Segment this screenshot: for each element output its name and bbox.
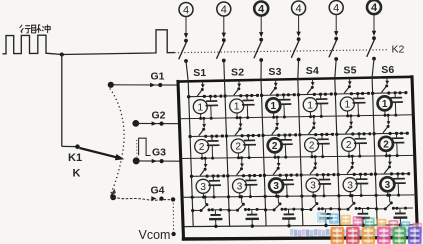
pixel cell row3 col5: pixel electrode circle "3" bbox=[343, 178, 357, 192]
pixel cell row1 col3: storage capacitor bbox=[283, 95, 285, 100]
circled 4 (data value) above S4 switch bbox=[292, 1, 306, 15]
pixel cell row2 col6: pixel return lead bbox=[385, 151, 387, 156]
svg-text:4: 4 bbox=[258, 4, 265, 16]
arrow from circled 4 down to S2 switch bbox=[223, 16, 225, 33]
column line S4 (source line) bbox=[297, 60, 300, 80]
node on G1 line bbox=[158, 83, 162, 87]
junction node (row pulse feed to K1) bbox=[60, 53, 64, 57]
pixel cell row1 col4: pixel return lead bbox=[309, 112, 311, 117]
pixel cell row2 col6: storage capacitor bbox=[396, 133, 398, 137]
pixel cell row1 col3: gate line segment bbox=[260, 80, 296, 119]
pixel cell row1 col5: storage capacitor bbox=[357, 94, 359, 98]
pixel cell row2 col4: pixel return lead bbox=[311, 152, 313, 157]
K2 switch S1 upper contact bbox=[184, 39, 188, 43]
svg-text:K1: K1 bbox=[68, 152, 82, 164]
pixel cell row3 col5: pixel return lead bbox=[349, 192, 351, 196]
K2 switch S2 upper contact bbox=[222, 38, 226, 42]
svg-text:K2: K2 bbox=[392, 44, 405, 56]
K2 switch S1 blade (open) bbox=[179, 42, 187, 60]
K1 contact G3 bbox=[133, 157, 140, 164]
svg-text:3: 3 bbox=[385, 180, 391, 191]
column line S3 (source line) bbox=[260, 60, 262, 80]
watermark: small colored site-name text (slanted row) bbox=[317, 212, 422, 233]
pixel cell row1 col4: storage capacitor bbox=[320, 94, 322, 99]
K2 switch S6 upper contact bbox=[372, 36, 376, 40]
K1 contact G1 bbox=[108, 82, 114, 88]
arrow from circled 4 down to S5 switch bbox=[335, 14, 337, 31]
pixel cell row1 col2: gate line segment bbox=[223, 81, 259, 120]
pixel cell row2 col2: pixel electrode circle "2" bbox=[231, 139, 245, 153]
column line S5 (source line) bbox=[335, 59, 336, 78]
K2 switch S5 lower contact bbox=[334, 57, 338, 61]
junction col1 row line bbox=[189, 135, 192, 138]
pixel cell row3 col5: storage capacitor bbox=[360, 174, 362, 178]
pixel cell row3 col6: gate line segment bbox=[374, 154, 411, 197]
bottom cell col5: switch and capacitor to Vcom rail bbox=[338, 194, 376, 227]
pixel cell row2 col4: TFT switch bbox=[312, 115, 315, 118]
pixel cell row3 col1: TFT switch bbox=[204, 157, 207, 160]
K2 switch S2 blade (open) bbox=[217, 41, 225, 59]
circled 4 (data value) above S6 switch bbox=[367, 0, 381, 14]
node on G4 line bbox=[159, 197, 163, 201]
pixel cell row1 col3: pixel electrode circle "1" bbox=[266, 98, 280, 112]
pixel cell row1 col4: pixel electrode circle "1" bbox=[303, 98, 317, 112]
gate pulse symbol at G3 contact bbox=[139, 138, 151, 155]
label "行脉冲" (row pulse) bbox=[20, 25, 51, 34]
K2 switch S6 lower contact bbox=[372, 57, 376, 61]
pixel cell row2 col1: storage capacitor bbox=[211, 136, 213, 140]
junction col2 row line bbox=[226, 174, 229, 177]
pixel cell row1 col2: pixel return lead bbox=[236, 113, 238, 118]
pixel cell row2 col2: pixel return lead bbox=[237, 153, 239, 158]
pixel cell row3 col4: gate line segment bbox=[300, 155, 336, 197]
wire: G2 row lead bbox=[136, 122, 180, 124]
svg-text:S3: S3 bbox=[268, 66, 281, 78]
junction col5 row line bbox=[337, 194, 340, 197]
node: Vcom connection bbox=[171, 232, 175, 236]
K1 wiper travel arc (dotted) bbox=[110, 89, 124, 194]
pixel cell row3 col4: TFT switch bbox=[314, 155, 317, 158]
K2 switch S3 blade (open) bbox=[254, 41, 262, 59]
junction col1 row line bbox=[187, 95, 190, 98]
junction col5 row line bbox=[334, 92, 337, 95]
K2 switch S4 lower contact bbox=[297, 58, 301, 62]
junction col2 row line bbox=[223, 94, 226, 97]
row G1 pixel common line (lower) bbox=[179, 115, 413, 119]
svg-text:2: 2 bbox=[199, 142, 205, 153]
pixel cell row1 col2: storage capacitor bbox=[246, 96, 248, 100]
arrow from circled 4 down to S1 switch bbox=[185, 16, 187, 33]
svg-text:1: 1 bbox=[307, 100, 313, 111]
K1 pole arrow (wiper pointing at G3 contact) bbox=[80, 148, 117, 157]
arrow from circled 4 down to S3 switch bbox=[260, 15, 262, 32]
junction col2 row line bbox=[225, 134, 228, 137]
pixel cell row2 col1: gate line segment bbox=[189, 117, 224, 160]
K2 switch S2 lower contact bbox=[222, 59, 226, 63]
pixel cell row1 col6: TFT switch bbox=[386, 78, 388, 84]
pixel cell row2 col3: storage capacitor bbox=[284, 135, 286, 139]
pixel cell row2 col6: pixel electrode circle "2" bbox=[379, 137, 393, 151]
junction col3 row line bbox=[260, 94, 263, 97]
pixel cell row2 col5: pixel electrode circle "2" bbox=[342, 137, 356, 151]
pixel cell row1 col1: TFT switch bbox=[202, 81, 204, 87]
pixel cell row3 col1: pixel return lead bbox=[202, 193, 204, 197]
pixel cell row3 col3: TFT switch bbox=[277, 156, 280, 159]
svg-text:S4: S4 bbox=[306, 65, 319, 77]
bottom cell col4: switch and capacitor to Vcom rail bbox=[301, 194, 339, 227]
row-pulse train waveform bbox=[3, 35, 62, 54]
svg-text:1: 1 bbox=[198, 102, 204, 113]
arrow from circled 4 down to S4 switch bbox=[298, 15, 300, 32]
svg-text:4: 4 bbox=[221, 4, 227, 16]
svg-text:G3: G3 bbox=[152, 147, 166, 159]
wire: vertical feed from junction down to K1 pole bbox=[61, 55, 63, 147]
dotted Vcom riser wire bbox=[172, 200, 174, 234]
pixel cell row3 col6: storage capacitor bbox=[397, 174, 399, 178]
pixel cell row1 col3: TFT switch bbox=[275, 80, 277, 86]
svg-text:3: 3 bbox=[347, 180, 353, 191]
pixel cell row1 col4: gate line segment bbox=[297, 79, 333, 118]
row G2 pixel common line (lower) bbox=[181, 155, 415, 158]
svg-text:K: K bbox=[73, 168, 81, 180]
junction col2 row line bbox=[227, 195, 230, 198]
wire: G4 row lead bbox=[113, 197, 173, 200]
pixel cell row3 col3: storage capacitor bbox=[285, 175, 287, 179]
circled 4 (data value) above S3 switch bbox=[254, 2, 268, 16]
junction col4 row line bbox=[300, 195, 303, 198]
bottom cell col1: switch and capacitor to Vcom rail bbox=[191, 195, 228, 228]
pixel cell row1 col1: storage capacitor bbox=[210, 96, 212, 100]
arrow from circled 4 down to S6 switch bbox=[373, 14, 375, 31]
wire: short horizontal to K1 pole bbox=[62, 145, 77, 147]
svg-text:1: 1 bbox=[382, 99, 388, 110]
K2 switch S1 lower contact bbox=[184, 59, 188, 63]
pixel cell row1 col5: TFT switch bbox=[349, 79, 351, 85]
bottom cell col2: switch and capacitor to Vcom rail bbox=[227, 195, 264, 228]
svg-text:Vcom: Vcom bbox=[139, 228, 171, 242]
K2 switch S3 upper contact bbox=[259, 38, 263, 42]
pixel cell row2 col2: gate line segment bbox=[225, 116, 261, 159]
svg-text:4: 4 bbox=[183, 5, 189, 17]
bottom cell col6: switch and capacitor to Vcom rail bbox=[375, 194, 413, 227]
pixel cell row2 col4: pixel electrode circle "2" bbox=[305, 138, 319, 152]
svg-text:4: 4 bbox=[333, 3, 339, 15]
single gate pulse on line bbox=[153, 30, 175, 53]
pixel cell row3 col1: pixel electrode circle "3" bbox=[196, 179, 210, 193]
arrowhead on G2 line bbox=[152, 121, 157, 125]
bottom cell col3: switch and capacitor to Vcom rail bbox=[264, 195, 301, 228]
pixel cell row3 col5: TFT switch bbox=[351, 155, 354, 158]
K2 switch S3 lower contact bbox=[259, 58, 263, 62]
pixel cell row3 col2: pixel return lead bbox=[239, 193, 241, 197]
pixel cell row1 col3: pixel return lead bbox=[273, 112, 275, 117]
LCD panel border bbox=[178, 77, 412, 82]
pixel cell row2 col3: pixel return lead bbox=[274, 153, 276, 158]
pixel cell row1 col4: TFT switch bbox=[312, 79, 314, 85]
wire: G3 row lead bbox=[136, 160, 181, 162]
junction col6 row line bbox=[374, 173, 377, 176]
circled 4 (data value) above S2 switch bbox=[217, 2, 231, 16]
pixel cell row2 col3: pixel electrode circle "2" bbox=[268, 138, 282, 152]
junction col3 row line bbox=[264, 195, 267, 198]
node on G2 line bbox=[159, 122, 163, 126]
svg-text:3: 3 bbox=[273, 181, 279, 192]
pixel cell row2 col4: gate line segment bbox=[298, 115, 334, 158]
junction col4 row line bbox=[300, 173, 303, 176]
K2 switch S4 upper contact bbox=[297, 37, 301, 41]
arrowhead on G1 line bbox=[150, 83, 155, 87]
pixel cell row3 col2: TFT switch bbox=[240, 156, 243, 159]
junction col6 row line bbox=[371, 92, 374, 95]
arrowhead on G3 line bbox=[152, 159, 157, 163]
svg-text:G4: G4 bbox=[151, 185, 165, 197]
svg-text:1: 1 bbox=[234, 102, 240, 113]
column line S1 (source line) bbox=[186, 61, 188, 81]
svg-text:S6: S6 bbox=[381, 64, 394, 76]
svg-text:1: 1 bbox=[271, 101, 277, 112]
K2 switch S5 upper contact bbox=[334, 37, 338, 41]
pixel cell row3 col6: pixel electrode circle "3" bbox=[380, 177, 394, 191]
junction col4 row line bbox=[297, 93, 300, 96]
pixel cell row2 col5: pixel return lead bbox=[348, 151, 350, 156]
pixel cell row3 col1: gate line segment bbox=[190, 157, 226, 199]
Vcom rail inside panel bbox=[183, 225, 417, 227]
column line S2 (source line) bbox=[223, 61, 226, 81]
pixel cell row2 col5: TFT switch bbox=[349, 114, 352, 117]
dotted link from pulse symbol to G3 contact bbox=[136, 140, 138, 157]
svg-text:G1: G1 bbox=[151, 70, 165, 82]
svg-text:2: 2 bbox=[383, 139, 389, 150]
pixel cell row1 col6: pixel return lead bbox=[384, 111, 386, 116]
pixel cell row1 col2: pixel electrode circle "1" bbox=[230, 99, 244, 113]
pixel cell row2 col5: storage capacitor bbox=[358, 134, 360, 139]
junction col5 row line bbox=[335, 133, 338, 136]
svg-text:S2: S2 bbox=[231, 66, 244, 78]
K2 switch S4 blade (open) bbox=[291, 40, 299, 58]
svg-text:S5: S5 bbox=[343, 65, 356, 77]
pixel cell row2 col1: pixel electrode circle "2" bbox=[195, 140, 209, 154]
pixel cell row2 col2: storage capacitor bbox=[247, 136, 249, 140]
circled 4 (data value) above S1 switch bbox=[179, 3, 193, 17]
node: G4 line end / Vcom riser top bbox=[171, 197, 175, 201]
svg-text:3: 3 bbox=[200, 182, 206, 193]
arrowhead on G4 line bbox=[151, 196, 156, 200]
wire: G1 row lead bbox=[111, 84, 178, 86]
pixel cell row3 col3: pixel electrode circle "3" bbox=[269, 179, 283, 193]
arrowhead at bottom of K1 arc bbox=[110, 189, 116, 197]
pixel cell row2 col4: storage capacitor bbox=[321, 135, 323, 139]
pixel cell row2 col3: gate line segment bbox=[261, 116, 297, 159]
pixel cell row1 col1: gate line segment bbox=[187, 81, 223, 120]
pixel cell row2 col2: TFT switch bbox=[239, 116, 242, 119]
svg-text:2: 2 bbox=[346, 140, 352, 151]
junction col6 row line bbox=[375, 194, 378, 197]
svg-text:4: 4 bbox=[371, 2, 378, 14]
pixel cell row1 col1: pixel electrode circle "1" bbox=[193, 100, 207, 114]
pixel cell row3 col6: pixel return lead bbox=[387, 191, 389, 195]
column line S6 (source line) bbox=[372, 59, 374, 78]
svg-text:3: 3 bbox=[237, 182, 243, 193]
svg-text:3: 3 bbox=[310, 181, 316, 192]
watermark: pale pixel band bbox=[290, 229, 422, 236]
K2 switch S5 blade (open) bbox=[329, 40, 337, 58]
pixel cell row3 col4: storage capacitor bbox=[322, 175, 324, 180]
wire: waveform baseline continuing right bbox=[62, 53, 153, 55]
pixel cell row2 col3: TFT switch bbox=[275, 116, 278, 119]
junction col6 row line bbox=[372, 132, 375, 135]
junction col3 row line bbox=[261, 134, 264, 137]
pixel cell row3 col2: pixel electrode circle "3" bbox=[233, 179, 247, 193]
svg-text:2: 2 bbox=[272, 141, 278, 152]
junction col1 row line bbox=[190, 175, 193, 178]
pixel cell row3 col2: gate line segment bbox=[226, 156, 262, 198]
svg-text:2: 2 bbox=[309, 141, 315, 152]
pixel cell row2 col1: TFT switch bbox=[202, 117, 205, 120]
pixel cell row3 col1: storage capacitor bbox=[212, 176, 214, 180]
junction col5 row line bbox=[337, 173, 340, 176]
svg-text:1: 1 bbox=[345, 100, 351, 111]
K1 pole node bbox=[75, 144, 80, 149]
pixel cell row1 col5: pixel electrode circle "1" bbox=[340, 97, 354, 111]
circled 4 (data value) above S5 switch bbox=[329, 1, 343, 15]
K1 contact G4 bbox=[110, 194, 116, 200]
svg-text:2: 2 bbox=[235, 142, 241, 153]
junction col4 row line bbox=[298, 133, 301, 136]
K1 contact G2 bbox=[132, 120, 139, 127]
pixel cell row2 col6: TFT switch bbox=[387, 114, 390, 117]
pixel cell row1 col6: storage capacitor bbox=[394, 93, 396, 98]
junction col1 row line bbox=[191, 196, 194, 199]
K2 wiper dotted line across switch bank bbox=[175, 50, 389, 53]
svg-text:G2: G2 bbox=[152, 109, 166, 121]
pixel cell row3 col4: pixel electrode circle "3" bbox=[306, 178, 320, 192]
pixel cell row2 col6: gate line segment bbox=[372, 114, 409, 158]
pixel cell row3 col3: gate line segment bbox=[263, 156, 299, 198]
watermark: large rainbow site-name text (cut off at bottom) bbox=[331, 227, 422, 244]
pixel cell row3 col6: TFT switch bbox=[388, 154, 391, 157]
svg-text:4: 4 bbox=[296, 3, 302, 15]
pixel cell row2 col5: gate line segment bbox=[335, 114, 371, 157]
row G4 gate line inside panel bbox=[182, 195, 416, 197]
pixel cell row1 col6: gate line segment bbox=[371, 78, 408, 117]
pixel cell row1 col5: gate line segment bbox=[334, 79, 370, 118]
pixel cell row3 col3: pixel return lead bbox=[275, 193, 277, 197]
pixel cell row3 col5: gate line segment bbox=[337, 155, 373, 197]
pixel cell row1 col6: pixel electrode circle "1" bbox=[378, 96, 392, 110]
pixel cell row3 col4: pixel return lead bbox=[312, 192, 314, 196]
node on G3 line bbox=[160, 159, 164, 163]
junction col3 row line bbox=[263, 174, 266, 177]
pixel cell row1 col2: TFT switch bbox=[238, 81, 240, 87]
pixel cell row2 col1: pixel return lead bbox=[201, 154, 203, 159]
K2 switch S6 blade (open) bbox=[367, 39, 375, 57]
svg-text:S1: S1 bbox=[193, 67, 206, 79]
pixel cell row3 col2: storage capacitor bbox=[249, 176, 251, 180]
pixel cell row1 col5: pixel return lead bbox=[347, 111, 349, 116]
pixel cell row1 col1: pixel return lead bbox=[200, 114, 202, 119]
